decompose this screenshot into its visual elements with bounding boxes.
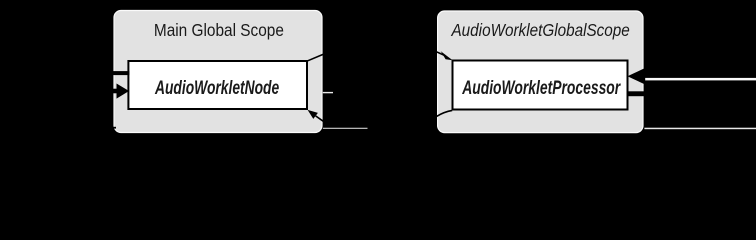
arrowhead at node bottom-right xyxy=(308,110,318,119)
white dash right of left box xyxy=(323,92,333,93)
thick bar out of processor right edge xyxy=(628,91,690,96)
svg-text:Main Global Scope: Main Global Scope xyxy=(154,20,284,40)
svg-text:AudioWorkletProcessor: AudioWorkletProcessor xyxy=(461,78,621,99)
inner box: AudioWorkletNode xyxy=(128,61,307,109)
thin line node top-right exiting xyxy=(307,54,325,62)
thin line entering right box top-left xyxy=(434,51,445,56)
scope box: AudioWorkletGlobalScope xyxy=(438,11,643,133)
thick arrow into node left (lower): head xyxy=(117,84,130,99)
thick arrow into node left (lower): shaft xyxy=(104,89,118,94)
thick bar into node left (upper) xyxy=(104,71,129,75)
thin line from node bottom-right exiting xyxy=(316,116,324,122)
white line segment below gap (left) xyxy=(323,128,368,129)
curve from processor bottom-left exiting xyxy=(430,110,452,120)
white line right of right box bottom xyxy=(644,128,756,130)
arrowhead at processor top-left xyxy=(441,51,453,60)
svg-text:AudioWorkletNode: AudioWorkletNode xyxy=(154,78,279,99)
inner box: AudioWorkletProcessor xyxy=(453,61,628,110)
white shaft line right of processor xyxy=(645,78,756,81)
arrowhead into processor right edge xyxy=(628,69,645,85)
svg-text:AudioWorkletGlobalScope: AudioWorkletGlobalScope xyxy=(451,20,630,40)
scope box: Main Global Scope xyxy=(114,11,322,133)
notch line crossing left border xyxy=(104,127,116,129)
